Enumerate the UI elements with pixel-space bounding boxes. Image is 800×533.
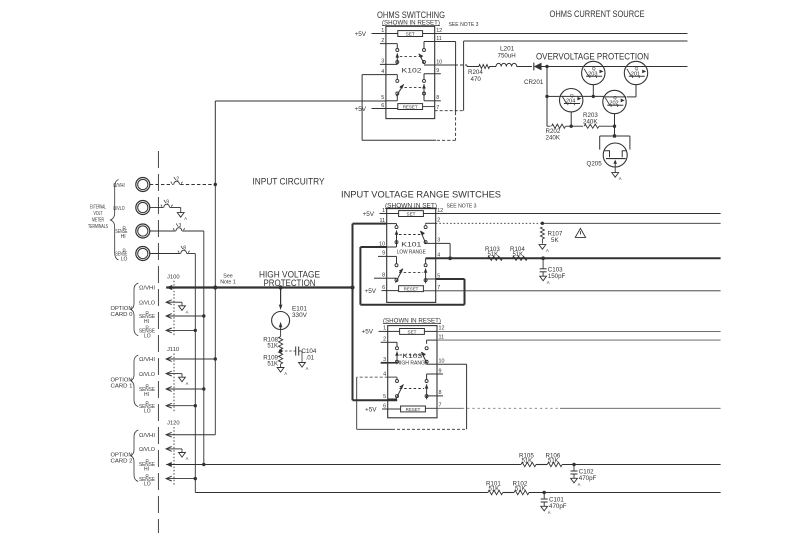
- svg-text:Ω/VHI: Ω/VHI: [139, 286, 155, 292]
- resistor R102: [514, 490, 529, 494]
- bracket option card 0: [131, 283, 139, 336]
- svg-text:A: A: [186, 381, 189, 386]
- wire J120 SENSE HI row to R105 line: [166, 462, 172, 467]
- relay K103 SET coil: [400, 329, 425, 335]
- resistor R103: [488, 256, 503, 260]
- wire K102 pin12 to right bus: [435, 33, 688, 35]
- ground below R107: [539, 245, 546, 250]
- svg-text:A: A: [619, 176, 622, 181]
- wire K102 pin8 stub: [435, 100, 441, 102]
- svg-text:8: 8: [183, 246, 186, 252]
- svg-text:SEE NOTE 3: SEE NOTE 3: [447, 203, 477, 209]
- relay K102 box: [386, 26, 435, 118]
- relay K102 lower contacts: [386, 74, 397, 76]
- svg-text:Ω/VHI: Ω/VHI: [113, 183, 125, 189]
- svg-text:12: 12: [437, 208, 443, 214]
- inductor L201: [496, 63, 517, 66]
- svg-text:6: 6: [381, 103, 384, 109]
- wire terminal VHI to input node (dashed): [150, 184, 173, 186]
- svg-text:CARD 2: CARD 2: [111, 458, 133, 464]
- relay K102 upper contacts: [380, 43, 397, 45]
- svg-text:4: 4: [383, 371, 386, 377]
- wire Q202 emitter down: [614, 114, 616, 126]
- svg-text:6: 6: [382, 285, 385, 291]
- node terminal VHI junction: [214, 183, 217, 186]
- svg-text:CARD 0: CARD 0: [111, 312, 133, 318]
- svg-text:5: 5: [383, 394, 386, 400]
- wire J110 SENSE HI row: [166, 387, 172, 392]
- svg-text:Ω: Ω: [146, 325, 149, 330]
- svg-text:8: 8: [439, 390, 442, 396]
- svg-text:Ω: Ω: [123, 225, 126, 230]
- node VHI bus junction: [350, 285, 354, 289]
- wire K101 pin3 jog to pin4 line: [436, 242, 450, 244]
- svg-text:Ω/VLO: Ω/VLO: [139, 372, 155, 378]
- connector symbol pin 2: [174, 181, 180, 184]
- resistor R108: [280, 330, 282, 337]
- svg-text:2: 2: [381, 38, 384, 44]
- svg-text:LO: LO: [121, 257, 128, 263]
- svg-text:R108: R108: [263, 337, 278, 344]
- wire K103 pin5 thick from VHI bus: [353, 399, 398, 401]
- relay K103 lower contacts: [388, 376, 397, 378]
- svg-text:+5V: +5V: [365, 406, 377, 413]
- svg-text:3: 3: [381, 59, 384, 65]
- svg-text:11: 11: [439, 334, 445, 340]
- svg-text:7: 7: [437, 285, 440, 291]
- svg-text:+5V: +5V: [362, 329, 374, 336]
- svg-text:2: 2: [437, 218, 440, 224]
- svg-text:SET: SET: [407, 211, 416, 216]
- svg-text:Ω: Ω: [146, 400, 149, 405]
- svg-text:VOLT: VOLT: [94, 211, 104, 217]
- wire terminal SENSE HI to bus: [150, 230, 176, 232]
- svg-text:2: 2: [383, 337, 386, 343]
- svg-text:K101: K101: [401, 242, 422, 249]
- wire K103 pin4 dash-dot to lower loop: [357, 376, 388, 378]
- bracket terminals: [111, 180, 119, 261]
- capacitor C103: [542, 258, 544, 269]
- wire K101 pin11 to VHI bus vertical (thick): [353, 223, 387, 225]
- svg-text:J100: J100: [167, 274, 180, 280]
- resistor R109: [279, 351, 283, 364]
- transistor Q201: [624, 61, 647, 84]
- svg-text:RESET: RESET: [404, 287, 419, 292]
- wire J100 VHI row (thick) to HV protection: [166, 285, 172, 290]
- resistor R105: [521, 462, 536, 466]
- svg-text:J110: J110: [167, 347, 179, 353]
- svg-text:Ω/VLO: Ω/VLO: [139, 300, 155, 306]
- terminal SENSE LO: [136, 247, 150, 261]
- svg-text:Q205: Q205: [587, 160, 603, 167]
- wire K103 pin11 line to right: [437, 339, 721, 341]
- svg-text:1: 1: [382, 208, 385, 214]
- wire J110 VHI row: [166, 357, 172, 362]
- svg-text:Ω: Ω: [146, 383, 149, 388]
- svg-text:A: A: [546, 248, 549, 253]
- svg-text:CARD 1: CARD 1: [111, 383, 133, 389]
- svg-text:A: A: [186, 456, 189, 461]
- wire K101 pin2 dashed line with R107 junction: [436, 222, 543, 224]
- svg-text:5K: 5K: [551, 237, 559, 244]
- svg-text:OHMS CURRENT SOURCE: OHMS CURRENT SOURCE: [550, 9, 645, 20]
- svg-text:750uH: 750uH: [498, 53, 516, 60]
- connector symbol pin 3: [176, 228, 182, 231]
- wire Q203 emitter down: [592, 85, 594, 97]
- node E101 top junction: [279, 285, 283, 289]
- wire J120 SENSE LO row: [166, 476, 172, 481]
- svg-text:7: 7: [439, 403, 442, 409]
- svg-text:51K: 51K: [515, 487, 526, 493]
- svg-text:8: 8: [436, 95, 439, 101]
- wire VHI vertical bus: [214, 101, 216, 185]
- svg-text:11: 11: [436, 36, 442, 42]
- wire terminal SENSE LO to bus: [150, 253, 181, 255]
- svg-text:470pF: 470pF: [579, 475, 597, 482]
- capacitor C104: [281, 350, 296, 352]
- svg-text:8: 8: [382, 273, 385, 279]
- svg-text:51K: 51K: [513, 252, 524, 258]
- node C102 junction: [572, 463, 575, 466]
- svg-text:+5V: +5V: [355, 31, 367, 38]
- svg-text:Ω/VHI: Ω/VHI: [139, 433, 155, 439]
- transistor Q203: [582, 61, 605, 84]
- relay K103 pin 2 stub: [381, 341, 388, 343]
- svg-text:6: 6: [383, 403, 386, 409]
- svg-text:HI: HI: [144, 467, 149, 473]
- wire K101 pin12 line to right: [436, 213, 721, 215]
- svg-text:METER: METER: [92, 218, 104, 224]
- wire SENSE HI long line: [204, 464, 521, 466]
- wire K101 pin7 line to right: [436, 290, 721, 292]
- svg-text:LOW RANGE: LOW RANGE: [397, 250, 426, 256]
- svg-text:51K: 51K: [267, 344, 278, 350]
- svg-text:J120: J120: [167, 421, 180, 427]
- svg-text:+5V: +5V: [365, 288, 377, 295]
- svg-text:R109: R109: [263, 355, 278, 362]
- svg-text:330V: 330V: [292, 312, 308, 319]
- connector symbol pin 8: [181, 250, 187, 253]
- relay K102 SET coil: [398, 31, 423, 37]
- terminal OHMS/VHI: [136, 178, 150, 192]
- terminal SENSE HI: [136, 224, 150, 238]
- relay K103 pin 3 stub thick: [381, 362, 388, 364]
- bracket option card 2: [131, 430, 139, 482]
- resistor R106: [547, 462, 562, 466]
- svg-text:INPUT CIRCUITRY: INPUT CIRCUITRY: [253, 177, 326, 188]
- connector J110 dashed pin line: [173, 354, 175, 412]
- svg-text:51K: 51K: [489, 487, 500, 493]
- svg-text:9: 9: [436, 68, 439, 74]
- wire K103 pin7 line to right: [437, 407, 462, 409]
- svg-text:Ω/VLO: Ω/VLO: [113, 206, 125, 212]
- svg-text:Ω: Ω: [146, 310, 149, 315]
- wire J120 VLO row with ground: [166, 447, 172, 452]
- svg-text:9: 9: [382, 251, 385, 257]
- svg-text:HIGH RANGE: HIGH RANGE: [396, 361, 428, 367]
- svg-text:5: 5: [381, 95, 384, 101]
- svg-text:SEE NOTE 3: SEE NOTE 3: [449, 22, 479, 28]
- svg-text:A: A: [184, 216, 187, 221]
- svg-text:A: A: [547, 280, 550, 285]
- resistor R204: [479, 65, 490, 69]
- relay K101 lower contacts: [387, 255, 397, 257]
- svg-text:K102: K102: [402, 68, 423, 75]
- wire Q202 emitter to Q205 cap: [614, 126, 616, 136]
- svg-text:RESET: RESET: [406, 407, 421, 412]
- svg-text:A: A: [578, 482, 581, 487]
- wire junction down to Q204 row and R202 row: [546, 67, 548, 127]
- boundary dashed line left: [157, 151, 159, 533]
- warning triangle note: [575, 228, 585, 237]
- wire SENSE LO long line: [194, 479, 196, 493]
- transistor Q205: [603, 143, 627, 167]
- spark gap E101: [280, 288, 282, 305]
- svg-text:4: 4: [381, 69, 384, 75]
- svg-text:.01: .01: [306, 354, 315, 361]
- wire Q204 base row: [547, 95, 559, 97]
- svg-text:470: 470: [471, 76, 482, 83]
- relay K102 RESET coil: [398, 104, 423, 110]
- svg-text:150pF: 150pF: [548, 273, 566, 280]
- relay K103 upper contacts: [388, 341, 397, 343]
- svg-text:K103: K103: [402, 353, 423, 360]
- svg-text:A: A: [186, 309, 189, 314]
- svg-text:240K: 240K: [546, 135, 561, 142]
- svg-text:Ω/VHI: Ω/VHI: [139, 357, 155, 363]
- relay K101 pin 8 stub: [374, 277, 387, 279]
- capacitor C102: [573, 465, 575, 472]
- relay K101 upper contacts: [387, 223, 397, 225]
- wire Q204 emitter down: [570, 112, 572, 126]
- wire J100 SENSE HI row: [166, 314, 172, 319]
- wire K102 pin7 dashed to top-right bus: [435, 110, 464, 112]
- svg-text:Ω/VLO: Ω/VLO: [139, 447, 155, 453]
- svg-text:SET: SET: [408, 329, 417, 334]
- svg-text:RESET: RESET: [403, 104, 418, 109]
- svg-text:HI: HI: [144, 392, 149, 398]
- svg-text:9: 9: [439, 368, 442, 374]
- capacitor C101: [543, 493, 545, 500]
- svg-text:+5V: +5V: [355, 106, 367, 113]
- svg-text:3: 3: [179, 223, 182, 229]
- svg-text:9: 9: [166, 200, 169, 206]
- svg-text:470pF: 470pF: [549, 503, 567, 510]
- svg-text:A: A: [284, 371, 287, 376]
- ground below R109: [277, 368, 284, 373]
- svg-text:LO: LO: [144, 409, 151, 415]
- ground below C101: [541, 506, 548, 511]
- wire J110 VLO row with ground: [166, 371, 172, 376]
- resistor R202: [547, 125, 551, 127]
- transistor Q204: [560, 89, 583, 112]
- relay K103 RESET coil: [401, 406, 426, 412]
- wire Q201 emitter down to Q202: [635, 85, 637, 97]
- transistor Q202: [603, 90, 626, 113]
- node junction R108 R109 C104: [280, 350, 282, 352]
- svg-text:INPUT VOLTAGE RANGE SWITCHES: INPUT VOLTAGE RANGE SWITCHES: [341, 190, 501, 201]
- svg-text:1: 1: [383, 326, 386, 332]
- ground below C104: [299, 363, 306, 368]
- transistor Q205 gate cap: [600, 135, 630, 137]
- ground below Q205: [614, 167, 616, 173]
- wire K102 pin5 to input node: [215, 100, 386, 102]
- svg-text:HI: HI: [121, 234, 126, 240]
- wire K103 pin12 line to right: [437, 330, 721, 332]
- svg-text:Note 1: Note 1: [220, 280, 236, 286]
- svg-text:Ω: Ω: [123, 248, 126, 253]
- svg-text:A: A: [306, 366, 309, 371]
- svg-text:Ω: Ω: [146, 473, 149, 478]
- svg-text:51K: 51K: [522, 459, 533, 465]
- svg-text:LO: LO: [144, 333, 151, 339]
- ground below C102: [571, 478, 578, 483]
- svg-text:1: 1: [381, 28, 384, 34]
- wire J100 SENSE LO row: [166, 328, 172, 333]
- svg-text:10: 10: [436, 59, 442, 65]
- wire main low-range output line (thick): [436, 257, 721, 259]
- svg-text:51K: 51K: [488, 252, 499, 258]
- svg-text:3: 3: [437, 238, 440, 244]
- bracket option card 1: [131, 355, 139, 407]
- svg-text:LO: LO: [144, 482, 151, 488]
- svg-text:A: A: [548, 510, 551, 515]
- svg-text:240K: 240K: [583, 118, 598, 125]
- relay K101 box: [387, 208, 436, 302]
- wire J110 SENSE LO row: [166, 403, 172, 408]
- diode CR201: [534, 63, 542, 71]
- wire K102 pin11 loop to pin4 (via left-bottom): [435, 41, 456, 43]
- svg-text:Ω: Ω: [146, 458, 149, 463]
- wire J120 VHI row: [166, 432, 172, 437]
- resistor R203: [571, 125, 583, 127]
- svg-text:2: 2: [176, 177, 179, 183]
- connector J100 dashed pin line: [173, 281, 175, 337]
- svg-text:EXTERNAL: EXTERNAL: [90, 205, 106, 211]
- connector J120 dashed pin line: [173, 427, 175, 485]
- wire terminal VLO to ground: [150, 207, 164, 209]
- svg-text:12: 12: [436, 28, 442, 34]
- resistor R107: [540, 227, 544, 239]
- svg-text:51K: 51K: [267, 362, 278, 368]
- svg-text:7: 7: [436, 105, 439, 111]
- wire J100 VLO row with ground: [166, 300, 172, 305]
- relay K101 pin 9 stub: [378, 255, 387, 257]
- svg-text:CR201: CR201: [524, 79, 544, 86]
- relay K103 box: [388, 326, 437, 418]
- ground below C103: [540, 276, 547, 281]
- svg-text:12: 12: [439, 326, 445, 332]
- relay K101 RESET coil: [399, 286, 424, 292]
- resistor R104: [512, 256, 527, 260]
- relay K101 SET coil: [399, 211, 424, 217]
- connector symbol pin 9: [164, 204, 170, 207]
- resistor R101: [488, 490, 503, 494]
- node junction CR201 output: [545, 65, 548, 68]
- wire K103 lower loop to pin10: [357, 428, 392, 430]
- terminal OHMS/VLO: [136, 201, 150, 215]
- ground at terminal VLO: [180, 208, 182, 213]
- svg-text:51K: 51K: [548, 459, 559, 465]
- node C101 junction: [543, 491, 546, 494]
- wire ohms source main line: [435, 64, 455, 66]
- svg-text:10: 10: [439, 359, 445, 365]
- svg-text:+5V: +5V: [363, 211, 375, 218]
- svg-text:TERMINALS: TERMINALS: [88, 224, 108, 230]
- svg-text:L201: L201: [500, 46, 515, 53]
- svg-text:SET: SET: [406, 31, 415, 36]
- wire K101 pin10 loop to pin5 (thick): [360, 246, 386, 248]
